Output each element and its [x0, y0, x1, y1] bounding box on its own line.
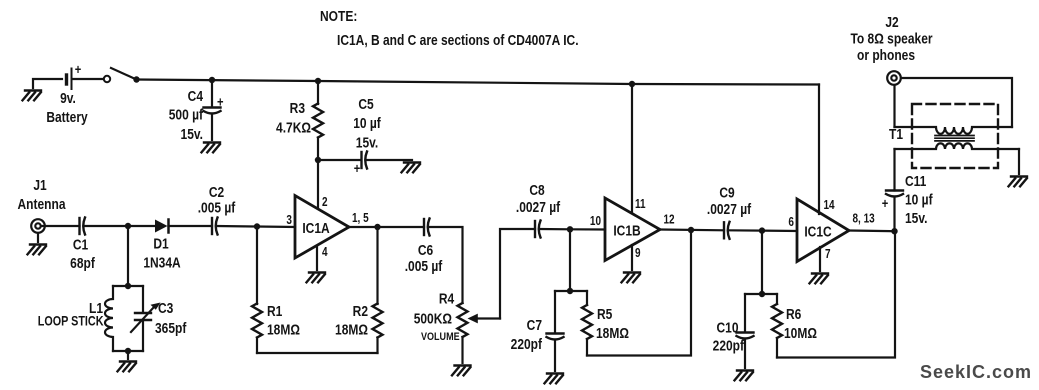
svg-text:6: 6	[788, 216, 794, 229]
svg-text:68pf: 68pf	[70, 255, 95, 272]
wire IC1C input drop	[761, 231, 763, 294]
svg-text:12: 12	[664, 214, 675, 227]
wire C6 to R4 top	[429, 227, 463, 303]
svg-text:R5: R5	[597, 306, 613, 323]
capacitor C10 220pf	[713, 294, 754, 368]
capacitor C9 .0027uf	[707, 184, 752, 239]
node R3 tap	[315, 78, 321, 84]
capacitor C5	[353, 96, 381, 177]
wire R5 feedback to IC1B output	[587, 230, 691, 356]
svg-text:2: 2	[322, 196, 328, 209]
wire battery to switch	[73, 78, 104, 80]
svg-text:11: 11	[635, 198, 646, 211]
svg-text:1N34A: 1N34A	[143, 254, 181, 271]
node tank bottom	[125, 348, 131, 354]
svg-text:T1: T1	[889, 126, 903, 143]
node R3/C5/pin2	[315, 157, 321, 163]
node A (tank tap)	[125, 223, 131, 229]
svg-text:9v.: 9v.	[60, 90, 76, 107]
ground (J1)	[28, 245, 47, 255]
svg-text:NOTE:: NOTE:	[320, 8, 357, 25]
wire R6 feedback to IC1C output	[777, 231, 895, 357]
svg-text:+: +	[354, 161, 361, 176]
wire node B to pin 3	[257, 225, 295, 228]
wire IC1C pin 14 to rail	[818, 85, 820, 215]
svg-text:or phones: or phones	[857, 47, 915, 64]
wire tank to ground	[127, 351, 129, 359]
node C7/R5	[567, 288, 573, 294]
svg-text:9: 9	[635, 247, 641, 260]
svg-text:IC1A, B and C are sections of: IC1A, B and C are sections of CD4007A IC…	[337, 32, 579, 49]
resistor R2 18M	[335, 227, 382, 353]
svg-text:220pf: 220pf	[511, 336, 543, 353]
svg-text:Antenna: Antenna	[18, 196, 66, 213]
svg-text:10MΩ: 10MΩ	[784, 325, 817, 342]
svg-text:.0027 µf: .0027 µf	[707, 201, 752, 218]
svg-text:+: +	[217, 94, 224, 109]
svg-text:18MΩ: 18MΩ	[267, 321, 300, 338]
switch S1	[104, 68, 137, 82]
svg-text:J2: J2	[885, 14, 899, 31]
wire J1 to ground	[37, 233, 39, 242]
wire J1 to C1	[41, 225, 80, 227]
svg-text:10 µf: 10 µf	[905, 191, 933, 208]
svg-text:.005 µf: .005 µf	[405, 258, 443, 275]
node pin 11 rail tap	[629, 81, 635, 87]
battery B1 9v	[46, 62, 88, 125]
wire T1 secondary to J2	[893, 85, 895, 127]
resistor R6 10M	[772, 294, 817, 358]
ground (C10)	[735, 371, 754, 381]
svg-text:3: 3	[286, 214, 292, 227]
capacitor C8 .0027uf	[516, 182, 561, 238]
svg-text:R1: R1	[267, 303, 283, 320]
svg-text:IC1B: IC1B	[613, 222, 641, 239]
wire tank drop	[127, 226, 129, 286]
wire IC1B pin 9	[631, 245, 633, 270]
wire C8 to IC1B input node	[540, 228, 571, 231]
wire J2 loop to T1 secondary right	[901, 78, 1012, 127]
svg-text:10 µf: 10 µf	[353, 115, 381, 132]
svg-text:15v.: 15v.	[181, 126, 203, 143]
wire wiper to C8	[500, 229, 535, 319]
ground (tank)	[118, 362, 137, 372]
svg-text:8, 13: 8, 13	[853, 213, 875, 226]
node IC1B output	[688, 227, 694, 233]
svg-text:IC1C: IC1C	[804, 223, 832, 240]
svg-text:.005 µf: .005 µf	[198, 199, 236, 216]
ground (C7)	[545, 374, 564, 384]
node C4 tap	[209, 77, 215, 83]
svg-text:18MΩ: 18MΩ	[335, 321, 368, 338]
wire C2 to node B	[217, 225, 258, 228]
wire IC1A output	[349, 226, 424, 228]
wire T1 primary right to ground	[1018, 149, 1020, 174]
svg-text:Battery: Battery	[46, 109, 88, 126]
capacitor C4	[169, 80, 224, 142]
svg-text:500KΩ: 500KΩ	[414, 310, 452, 327]
svg-text:C4: C4	[188, 88, 204, 105]
wire C9 to IC1C input node	[729, 229, 763, 232]
wire IC1B output	[660, 228, 724, 231]
wire V+ rail	[137, 80, 820, 85]
ground (R4)	[452, 366, 471, 376]
capacitor C1 68pf	[70, 218, 95, 272]
svg-text:VOLUME: VOLUME	[421, 331, 460, 343]
svg-text:IC1A: IC1A	[302, 220, 330, 237]
svg-text:365pf: 365pf	[155, 320, 187, 337]
svg-text:4.7KΩ: 4.7KΩ	[276, 119, 311, 136]
ground (C4)	[202, 143, 221, 153]
capacitor C7 220pf	[511, 291, 564, 371]
node IC1A output	[374, 224, 380, 230]
svg-text:500 µf: 500 µf	[169, 106, 204, 123]
resistor R3 4.7K	[276, 81, 323, 160]
wire IC1B pin 11 to rail	[631, 84, 633, 213]
node C10/R6	[759, 291, 765, 297]
diode D1 1N34A	[128, 220, 212, 271]
connector J1	[18, 177, 66, 233]
svg-text:J1: J1	[33, 177, 47, 194]
ground (battery negative)	[23, 91, 42, 101]
wire node to pin 10	[570, 228, 605, 230]
node IC1C input	[759, 227, 765, 233]
svg-text:R3: R3	[290, 100, 306, 117]
svg-text:1, 5: 1, 5	[352, 212, 369, 225]
wire C1 to node A	[84, 225, 128, 227]
wire C5 to ground	[366, 159, 412, 161]
node tank top	[125, 283, 131, 289]
ground (C5)	[402, 163, 421, 173]
svg-text:C1: C1	[73, 236, 89, 253]
svg-text:D1: D1	[153, 235, 169, 252]
svg-text:C11: C11	[905, 173, 927, 190]
svg-text:C10: C10	[716, 319, 738, 336]
svg-text:C7: C7	[527, 317, 542, 334]
wire IC1B input drop	[569, 229, 571, 291]
node IC1B input	[567, 226, 573, 232]
node switch/rail junction	[133, 76, 139, 82]
capacitor C2 .005uf	[198, 184, 236, 235]
svg-text:R4: R4	[439, 290, 455, 307]
node IC1C output	[891, 228, 897, 234]
svg-text:10: 10	[590, 215, 601, 228]
capacitor C3 365pf variable	[131, 286, 187, 351]
wire node to pin 6	[762, 230, 797, 233]
node B (IC1A input)	[254, 223, 260, 229]
transformer T1	[889, 104, 1019, 168]
wire IC1C pin 7	[819, 247, 821, 271]
capacitor C11 10uf	[882, 149, 933, 231]
svg-text:7: 7	[825, 248, 831, 261]
wire node to C7 and R5	[555, 290, 587, 292]
wire node to C10 and R6	[745, 293, 777, 295]
svg-text:To 8Ω speaker: To 8Ω speaker	[850, 30, 933, 47]
svg-text:R6: R6	[786, 306, 802, 323]
wire IC1A pin 4	[316, 246, 318, 270]
ground (IC1B pin 9)	[622, 273, 641, 283]
svg-text:+: +	[882, 196, 889, 211]
svg-text:C2: C2	[209, 184, 225, 201]
capacitor C6 .005uf	[405, 219, 443, 275]
potentiometer R4 500K VOLUME	[414, 290, 500, 363]
wire node to C5	[318, 159, 361, 161]
svg-text:R2: R2	[353, 303, 369, 320]
svg-text:C5: C5	[358, 96, 374, 113]
svg-text:18MΩ: 18MΩ	[596, 325, 629, 342]
svg-text:+: +	[75, 62, 82, 77]
svg-text:.0027 µf: .0027 µf	[516, 199, 561, 216]
svg-text:C9: C9	[719, 184, 735, 201]
svg-text:14: 14	[824, 199, 836, 212]
wire pin2 from R3 node	[317, 160, 319, 207]
svg-text:C8: C8	[529, 182, 545, 199]
wire IC1C output	[849, 229, 895, 232]
svg-text:LOOP STICK: LOOP STICK	[38, 313, 104, 328]
svg-text:15v.: 15v.	[356, 134, 378, 151]
resistor R1 18M	[252, 227, 300, 354]
svg-text:4: 4	[322, 246, 328, 259]
wire battery negative	[33, 79, 62, 88]
ground (IC1C pin 7)	[810, 274, 829, 284]
op-amp IC1C	[788, 199, 874, 262]
connector J2	[850, 14, 933, 85]
op-amp IC1A	[286, 196, 368, 260]
svg-text:SeekIC.com: SeekIC.com	[920, 362, 1032, 382]
op-amp IC1B	[590, 198, 675, 261]
svg-text:C6: C6	[418, 242, 434, 259]
note text	[320, 8, 579, 49]
ground (IC1A pin 4)	[307, 273, 326, 283]
svg-text:220pf: 220pf	[713, 337, 745, 354]
resistor R5 18M	[582, 291, 629, 356]
wire R1-R2 feedback bottom	[257, 352, 378, 354]
ground (T1 primary right)	[1009, 177, 1028, 187]
svg-text:15v.: 15v.	[905, 210, 927, 227]
inductor L1 LOOP STICK	[38, 286, 143, 351]
svg-text:C3: C3	[158, 300, 174, 317]
